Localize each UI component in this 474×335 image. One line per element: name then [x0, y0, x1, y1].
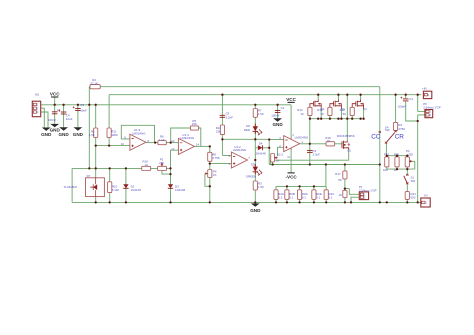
- wire R2A stubs: [275, 186, 277, 202]
- svg-text:100K: 100K: [111, 133, 118, 137]
- wire R2C stubs: [325, 186, 327, 202]
- pin 4 label U2:1: [292, 133, 294, 137]
- resistor R10: [108, 182, 120, 193]
- wire net R12 to D6 D4: [222, 138, 269, 140]
- junction: [417, 94, 419, 96]
- wire U2:1 power pin11 to -VCC: [290, 150, 292, 173]
- junction: [88, 104, 90, 106]
- junction: [359, 118, 361, 120]
- resistor R15: [317, 107, 332, 116]
- resistor R7: [253, 108, 264, 117]
- junction: [386, 155, 388, 157]
- diode D2: [123, 184, 141, 192]
- junction: [54, 104, 56, 106]
- svg-text:SW: SW: [411, 179, 416, 183]
- power VCC symbol middle: [286, 97, 296, 103]
- wire source feedback net: [269, 164, 380, 166]
- pin 6 label U1:2: [229, 154, 231, 158]
- junction: [313, 185, 315, 187]
- junction: [286, 185, 288, 187]
- capacitor C6: [307, 149, 320, 157]
- transistor Q4: [352, 100, 367, 112]
- wire R2B stubs: [286, 186, 288, 202]
- svg-text:10uF: 10uF: [66, 117, 73, 121]
- junction: [362, 118, 364, 120]
- junction: [340, 118, 342, 120]
- wire R4 to switch contact: [395, 131, 397, 133]
- pin 12 label U1:4: [171, 147, 175, 151]
- svg-text:1K: 1K: [145, 163, 149, 167]
- resistor R2E: [312, 190, 322, 200]
- svg-text:1N4148: 1N4148: [131, 188, 142, 192]
- svg-text:0.1: 0.1: [289, 196, 293, 200]
- junction: [170, 141, 172, 143]
- svg-text:CC: CC: [371, 134, 381, 141]
- svg-text:LM324NG: LM324NG: [181, 136, 195, 140]
- ground under C7: [50, 124, 61, 133]
- junction: [169, 167, 171, 169]
- svg-text:5K: 5K: [338, 178, 342, 182]
- wire P1 pin1 link: [345, 189, 359, 195]
- wire P5 bottom stub: [272, 162, 274, 165]
- svg-text:2.2nF: 2.2nF: [226, 115, 234, 119]
- svg-text:250: 250: [408, 153, 413, 157]
- junction: [405, 94, 407, 96]
- svg-text:100nF: 100nF: [271, 113, 279, 117]
- wire R2D stubs: [299, 186, 301, 202]
- wire R11 top vertical: [108, 95, 110, 146]
- capacitor C3: [73, 103, 87, 112]
- ground under C3: [73, 127, 84, 137]
- svg-text:475K: 475K: [398, 127, 405, 131]
- wire C4 branch: [63, 105, 65, 128]
- junction: [125, 167, 127, 169]
- svg-text:Q1: Q1: [347, 149, 351, 153]
- wire S1 to R21: [406, 183, 408, 191]
- svg-text:CR: CR: [395, 134, 405, 141]
- wire P6 pin2 link: [418, 114, 425, 116]
- wire D3 column pin12: [171, 150, 179, 202]
- junction: [309, 143, 311, 145]
- junction: [125, 201, 127, 203]
- wire R4 top: [395, 95, 397, 123]
- wire D2 column: [125, 168, 127, 202]
- svg-text:14: 14: [196, 143, 200, 147]
- wire CC vertical: [379, 87, 381, 203]
- resistor R21: [405, 192, 416, 200]
- svg-text:2.2nF: 2.2nF: [313, 153, 321, 157]
- wire C5 R12 column: [222, 95, 231, 156]
- svg-text:VCC: VCC: [50, 91, 60, 96]
- svg-text:GND: GND: [41, 132, 52, 137]
- transistor Q3: [330, 100, 345, 112]
- wire R13 to bus: [309, 116, 311, 119]
- wire P3 wiper link: [162, 171, 171, 175]
- wire Q4 drain: [360, 95, 362, 100]
- net label CR: [395, 134, 405, 141]
- wire R7 LED column: [254, 105, 256, 203]
- wire U2:1 pin2 input: [278, 147, 284, 156]
- wire U2:1 power pin4: [290, 105, 292, 137]
- resistor R2C: [324, 190, 334, 200]
- junction: [209, 201, 211, 203]
- wire C4 column: [406, 95, 418, 121]
- diode D4: [256, 141, 267, 155]
- junction: [209, 162, 211, 164]
- junction: [95, 144, 97, 146]
- pin 3 label U2:1: [279, 136, 281, 140]
- pin 13 label U1:4: [171, 139, 175, 143]
- svg-text:C3: C3: [80, 103, 84, 107]
- wire R17 column: [344, 165, 346, 203]
- junction: [406, 201, 408, 203]
- junction: [351, 118, 353, 120]
- wire U1:3 output to R6: [146, 142, 158, 144]
- junction: [379, 163, 381, 165]
- junction: [268, 138, 270, 140]
- resistor RP1: [394, 152, 400, 172]
- junction: [95, 104, 97, 106]
- wire R6 to U1:4 pin13: [166, 142, 178, 144]
- svg-text:1K: 1K: [339, 193, 343, 197]
- wire U1:3 pin10 input: [96, 145, 130, 147]
- svg-text:+IN: +IN: [422, 87, 427, 91]
- junction: [317, 118, 319, 120]
- junction: [396, 168, 398, 170]
- svg-text:1K: 1K: [213, 173, 217, 177]
- capacitor C7: [48, 108, 61, 122]
- junction: [95, 201, 97, 203]
- wire S4 common to divider bus: [385, 143, 387, 156]
- wire P1 pin2 link: [351, 197, 359, 202]
- svg-text:1K: 1K: [327, 139, 331, 143]
- svg-text:10K: 10K: [192, 122, 197, 126]
- transistor Q1 FDC645N65S: [337, 134, 355, 152]
- wire R10 column: [109, 168, 111, 202]
- wire R8 to P4: [209, 164, 211, 170]
- wire R2E stubs: [313, 186, 315, 202]
- junction: [286, 201, 288, 203]
- svg-text:GND: GND: [58, 132, 69, 137]
- wire top net from R2 to CC switch: [89, 86, 380, 88]
- wire Q2 source: [320, 109, 322, 119]
- junction: [346, 118, 348, 120]
- junction: [271, 163, 273, 165]
- wire Q4 source: [363, 109, 365, 119]
- svg-text:RED: RED: [244, 128, 250, 132]
- svg-text:C4: C4: [409, 97, 413, 101]
- junction: [346, 94, 348, 96]
- wire Q1 source path: [271, 150, 349, 165]
- wire Q1 drain vertical: [346, 95, 348, 141]
- wire R2 left vertical: [88, 87, 90, 169]
- wire VCC rail: [41, 104, 291, 106]
- junction: [379, 201, 381, 203]
- svg-text:-VCC: -VCC: [285, 175, 297, 180]
- wire P4 bottom to rail: [209, 178, 211, 203]
- resistor R19: [325, 136, 334, 146]
- svg-text:1.5K: 1.5K: [258, 112, 264, 116]
- junction: [329, 118, 331, 120]
- svg-text:500: 500: [411, 195, 416, 199]
- junction: [254, 159, 256, 161]
- svg-text:1N4148: 1N4148: [256, 152, 267, 156]
- potentiometer P2: [405, 149, 413, 167]
- wire VCC stem to C7 and GND: [54, 97, 56, 123]
- wire bottom rail: [72, 201, 421, 203]
- svg-text:SW: SW: [385, 128, 390, 132]
- svg-text:15K: 15K: [216, 130, 221, 134]
- wire divider top bus: [387, 155, 408, 157]
- wire U2:1 pin3 input: [269, 139, 284, 141]
- resistor R16: [142, 160, 151, 171]
- wire Q2 drain: [317, 95, 319, 100]
- junction: [317, 94, 319, 96]
- junction: [169, 173, 171, 175]
- resistor PT1: [383, 152, 390, 172]
- wire divider bottom bus: [387, 167, 415, 169]
- capacitor C1: [271, 106, 284, 117]
- svg-text:4.75K: 4.75K: [212, 156, 220, 160]
- junction: [417, 120, 419, 122]
- svg-text:0.1: 0.1: [329, 196, 333, 200]
- svg-text:-IN: -IN: [424, 194, 428, 198]
- svg-text:GND: GND: [250, 208, 261, 213]
- wire C3 branch: [77, 105, 79, 128]
- junction: [88, 167, 90, 169]
- wire C1 branch: [277, 105, 279, 119]
- resistor R2D: [298, 190, 308, 200]
- junction: [254, 138, 256, 140]
- svg-text:1K: 1K: [300, 112, 304, 116]
- connector P6: [423, 102, 441, 118]
- svg-text:2.54mm 1*2P: 2.54mm 1*2P: [359, 188, 377, 192]
- ground under C1: [272, 118, 283, 127]
- ground center bottom: [250, 203, 261, 212]
- wire Q3 drain: [337, 95, 339, 100]
- svg-text:D7: D7: [87, 174, 91, 178]
- pin 11 label U2:1: [287, 155, 290, 159]
- connector P1: [359, 185, 377, 200]
- capacitor C5: [220, 112, 234, 120]
- junction: [154, 141, 156, 143]
- resistor R1: [89, 128, 98, 138]
- wire mosfet source bus: [310, 118, 364, 120]
- potentiometer P4: [205, 169, 217, 177]
- svg-text:100pF: 100pF: [398, 105, 406, 109]
- junction: [359, 94, 361, 96]
- wire U1:4 feedback loop: [171, 128, 201, 146]
- resistor R11: [107, 128, 118, 138]
- wire right vertical to -IN: [417, 115, 419, 202]
- power VCC symbol left: [50, 91, 60, 97]
- LED D5 GREEN: [246, 162, 262, 178]
- resistor R17: [335, 171, 347, 182]
- junction: [325, 201, 327, 203]
- svg-text:LM324NG: LM324NG: [233, 148, 247, 152]
- svg-text:10K: 10K: [383, 168, 388, 172]
- junction: [268, 147, 270, 149]
- junction: [337, 118, 339, 120]
- wire P2 to S1: [406, 167, 408, 175]
- resistor R20: [339, 190, 348, 197]
- pin 5 label U1:2: [229, 162, 231, 166]
- junction: [77, 104, 79, 106]
- svg-text:TL431BLP: TL431BLP: [64, 185, 78, 189]
- svg-text:GND: GND: [272, 122, 283, 127]
- junction: [62, 104, 64, 106]
- capacitor C4 input filter: [398, 97, 414, 109]
- pin 1 label U2:1: [301, 140, 303, 144]
- svg-text:100nF: 100nF: [48, 118, 56, 122]
- wire R21 to rail: [406, 199, 408, 202]
- junction: [396, 155, 398, 157]
- svg-text:M1: M1: [35, 92, 39, 96]
- op-amp U1:2: [231, 145, 247, 168]
- svg-text:1N4148: 1N4148: [175, 188, 186, 192]
- junction: [325, 163, 327, 165]
- svg-text:1.5K: 1.5K: [89, 133, 95, 137]
- wire PT1 bottom stub: [396, 167, 398, 169]
- junction: [298, 185, 300, 187]
- svg-text:U2:1: U2:1: [277, 153, 284, 157]
- wire P6 pin1 link: [418, 110, 425, 112]
- junction: [209, 185, 211, 187]
- junction: [95, 167, 97, 169]
- pin 7 label U1:2: [248, 156, 250, 160]
- ground under C4: [58, 127, 69, 137]
- svg-text:1.1K: 1.1K: [159, 138, 165, 142]
- svg-text:C1: C1: [281, 106, 285, 110]
- svg-text:R17: R17: [335, 172, 341, 176]
- svg-text:D5: D5: [251, 162, 255, 166]
- svg-text:5.11K: 5.11K: [112, 188, 119, 192]
- junction: [320, 118, 322, 120]
- junction: [406, 155, 408, 157]
- wire R1 D7 column: [95, 105, 97, 203]
- pin 9 label U1:3: [124, 135, 126, 139]
- transistor Q2: [310, 100, 325, 112]
- power -VCC symbol: [285, 173, 297, 180]
- svg-text:2.54mm 1*2P: 2.54mm 1*2P: [423, 105, 441, 109]
- resistor R18: [340, 107, 355, 116]
- svg-text:GND: GND: [73, 132, 84, 137]
- wire U1:4 output: [194, 145, 209, 147]
- wire R15 to bus: [329, 116, 331, 119]
- resistor R12: [216, 125, 225, 135]
- resistor R3: [253, 181, 264, 190]
- resistor R2B: [285, 190, 295, 200]
- resistor R8: [208, 152, 220, 161]
- svg-text:LM324NG: LM324NG: [295, 136, 309, 140]
- resistor R2A: [274, 190, 284, 200]
- svg-text:0.1: 0.1: [302, 196, 306, 200]
- svg-text:FDC645N65S: FDC645N65S: [337, 134, 355, 138]
- svg-text:0.1: 0.1: [278, 196, 282, 200]
- svg-text:2K: 2K: [276, 158, 279, 162]
- wire R18 to bus: [351, 116, 353, 119]
- svg-text:22.1K: 22.1K: [90, 81, 98, 85]
- svg-text:10uF: 10uF: [80, 109, 87, 113]
- junction: [406, 168, 408, 170]
- junction: [350, 201, 352, 203]
- wire lower left net: [72, 167, 170, 169]
- wire M1 pin3 to GND: [41, 112, 48, 128]
- wire Q3 source: [340, 109, 342, 119]
- junction: [209, 145, 211, 147]
- diode D3: [168, 184, 186, 192]
- potentiometer P3: [158, 158, 167, 171]
- switch S4: [379, 125, 397, 143]
- wire sense bank top bus: [276, 185, 326, 187]
- pin 8 label U1:3: [148, 139, 150, 143]
- junction: [108, 144, 110, 146]
- svg-text:1.5K: 1.5K: [258, 185, 264, 189]
- svg-text:0.1: 0.1: [316, 196, 320, 200]
- junction: [344, 201, 346, 203]
- pin 14 label U1:4: [196, 143, 200, 147]
- svg-text:C7: C7: [57, 108, 61, 112]
- wire U2:1 output to Q1 gate: [300, 143, 342, 145]
- svg-text:10: 10: [121, 142, 125, 146]
- capacitor C4: [58, 110, 72, 121]
- junction: [309, 118, 311, 120]
- wire R8 column to pin5: [210, 146, 232, 163]
- junction: [221, 138, 223, 140]
- svg-text:GREEN: GREEN: [246, 175, 256, 179]
- junction: [221, 94, 223, 96]
- junction: [344, 187, 346, 189]
- svg-text:D4: D4: [259, 141, 263, 145]
- junction: [275, 201, 277, 203]
- wire P4 loop: [205, 174, 210, 187]
- wire U1:3 feedback loop: [121, 125, 154, 142]
- ground under M1 pins: [41, 128, 52, 138]
- svg-text:LM324NG: LM324NG: [132, 131, 146, 135]
- junction: [254, 104, 256, 106]
- wire right vertical upper: [417, 95, 419, 112]
- wire C6 column: [309, 119, 311, 165]
- wire second top net: [109, 94, 421, 96]
- wire left drop to bottom rail: [71, 168, 73, 202]
- svg-text:VCC: VCC: [286, 97, 296, 102]
- op-amp U2:1: [277, 136, 309, 157]
- junction: [276, 104, 278, 106]
- junction: [337, 94, 339, 96]
- wire P2 wiper link: [412, 161, 415, 169]
- resistor R5: [190, 119, 198, 130]
- connector -IN: [421, 194, 430, 207]
- junction: [254, 201, 256, 203]
- svg-text:5K: 5K: [343, 112, 347, 116]
- junction: [394, 94, 396, 96]
- pin 2 label U2:1: [279, 144, 281, 148]
- pin 10 label U1:3: [121, 142, 125, 146]
- resistor R4: [394, 122, 406, 130]
- trimmer P5: [271, 154, 280, 163]
- svg-text:12: 12: [171, 147, 175, 151]
- connector +IN: [422, 87, 432, 99]
- LED D6 RED: [244, 124, 262, 136]
- net label CC: [371, 134, 381, 141]
- op-amp U1:4: [178, 133, 194, 155]
- junction: [417, 201, 419, 203]
- wire M1 pin2 to GND: [41, 108, 45, 127]
- junction: [344, 163, 346, 165]
- connector M1: [32, 92, 40, 116]
- junction: [298, 201, 300, 203]
- switch S1: [404, 174, 416, 184]
